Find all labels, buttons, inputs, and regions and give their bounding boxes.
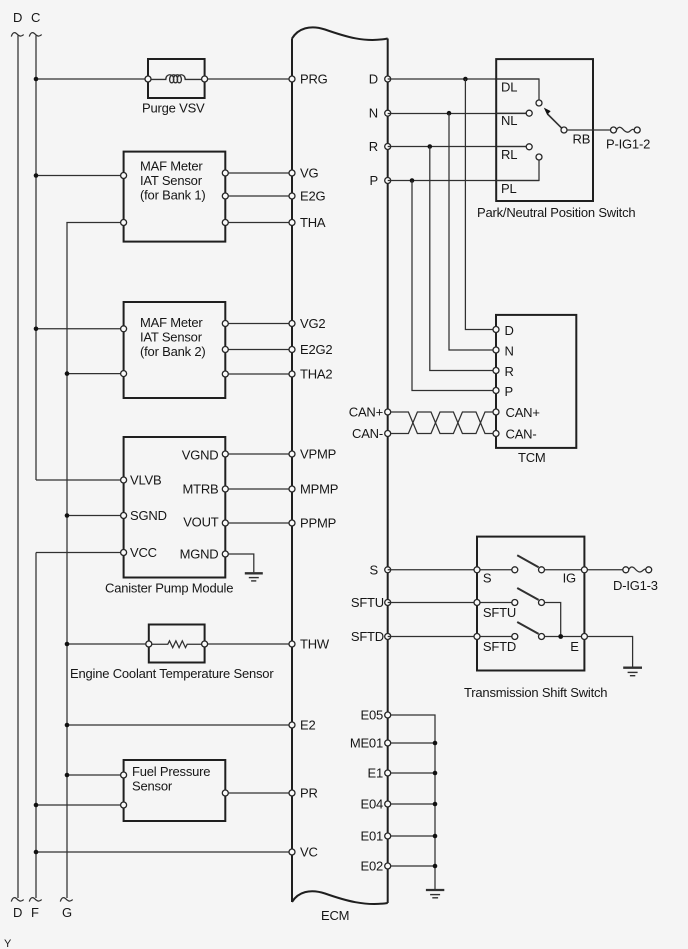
- junction G/SGND: [65, 513, 70, 518]
- pin PR: [289, 790, 295, 796]
- wire C-rail to Purge VSV: [36, 78, 148, 80]
- wire FPS to PR: [225, 792, 292, 794]
- wire G-rail to MAF2 ground: [67, 373, 124, 375]
- pin E01: [385, 833, 391, 839]
- pin TSS S: [474, 567, 480, 573]
- wire VGND to VPMP: [225, 453, 292, 455]
- svg-text:VG: VG: [300, 166, 318, 181]
- wire E02 to bus: [390, 865, 435, 867]
- wire PL lead: [496, 160, 539, 181]
- MAF Meter IAT Sensor (Bank 1) box: [124, 152, 226, 242]
- resistor R1 (ECT thermistor): [152, 641, 202, 648]
- break symbol rail C top: [29, 33, 41, 37]
- wire G-rail to ECT sensor: [67, 643, 149, 645]
- wire ECT sensor to THW: [205, 643, 292, 645]
- pin VC: [289, 849, 295, 855]
- pin FPS left lower: [121, 802, 127, 808]
- pin MAF1 right THA: [222, 220, 228, 226]
- junction bus/E1: [433, 771, 438, 776]
- wire SFTD to E: [545, 636, 585, 638]
- contact RB common: [561, 127, 567, 133]
- pin VG: [289, 170, 295, 176]
- svg-text:CAN-: CAN-: [506, 426, 537, 441]
- svg-text:Purge VSV: Purge VSV: [142, 101, 205, 116]
- pin Purge VSV left: [145, 76, 151, 82]
- pin THW: [289, 641, 295, 647]
- pin D (ECM right): [385, 76, 391, 82]
- svg-text:MGND: MGND: [180, 547, 219, 562]
- pin VCC: [121, 550, 127, 556]
- Engine Coolant Temperature Sensor box: [149, 625, 205, 663]
- pin E2: [289, 722, 295, 728]
- svg-text:CAN+: CAN+: [349, 405, 383, 420]
- wire MAF2 E2G2: [225, 349, 292, 351]
- wire MAF1 THA: [225, 222, 292, 224]
- pin TSS SFTU: [474, 600, 480, 606]
- svg-text:D-IG1-3: D-IG1-3: [613, 578, 658, 593]
- svg-text:MAF Meter: MAF Meter: [140, 315, 203, 330]
- pin MAF2 left upper: [121, 326, 127, 332]
- svg-text:THA: THA: [300, 215, 326, 230]
- junction bus/E02: [433, 864, 438, 869]
- pin FPS left upper: [121, 772, 127, 778]
- svg-text:PRG: PRG: [300, 72, 328, 87]
- wire N branch to TCM N: [449, 113, 496, 350]
- pin CAN+ (ECM): [385, 409, 391, 415]
- pin E05: [385, 712, 391, 718]
- svg-text:VGND: VGND: [182, 448, 219, 463]
- contact DL: [536, 100, 542, 106]
- pin MGND: [222, 551, 228, 557]
- junction R branch: [428, 144, 433, 149]
- pin MAF1 left upper: [121, 173, 127, 179]
- svg-text:D: D: [13, 905, 22, 920]
- svg-text:MAF Meter: MAF Meter: [140, 159, 203, 174]
- wire MAF1 E2G: [225, 195, 292, 197]
- wire Purge VSV to PRG: [205, 78, 292, 80]
- wire SFTU to switch: [388, 602, 512, 604]
- ECM left edge: [291, 39, 293, 903]
- ground MGND: [245, 572, 263, 574]
- svg-text:RL: RL: [501, 147, 517, 162]
- junction SFTU/SFTD: [558, 634, 563, 639]
- wire C-rail to MAF1 VB: [36, 175, 124, 177]
- svg-text:P-IG1-2: P-IG1-2: [606, 137, 650, 152]
- junction bus/E01: [433, 834, 438, 839]
- pin MAF2 right E2G2: [222, 347, 228, 353]
- pin ECT right: [202, 641, 208, 647]
- svg-text:P: P: [370, 173, 378, 188]
- twisted pair CAN wire A: [390, 412, 493, 434]
- switch SFTU blade: [517, 588, 538, 600]
- wire C-rail to MAF2 VB: [36, 328, 124, 330]
- wire D to P/N switch: [388, 78, 539, 80]
- wire VOUT to PPMP: [225, 522, 292, 524]
- junction bus/E04: [433, 802, 438, 807]
- wire P to P/N switch: [388, 180, 539, 182]
- pin TCM P: [493, 388, 499, 394]
- rail G (third vertical wire): [66, 223, 68, 899]
- svg-text:S: S: [370, 562, 379, 577]
- svg-text:P: P: [505, 384, 513, 399]
- junction N branch: [447, 111, 452, 116]
- svg-text:E: E: [570, 639, 579, 654]
- junction G/THW: [65, 642, 70, 647]
- svg-text:Sensor: Sensor: [132, 778, 173, 793]
- wire MGND to ground: [225, 554, 254, 572]
- wire ME01 to bus: [390, 742, 435, 744]
- svg-text:SFTD: SFTD: [483, 639, 516, 654]
- pin TCM CAN-: [493, 431, 499, 437]
- pin E02: [385, 863, 391, 869]
- ECM top wavy edge: [292, 27, 388, 40]
- svg-text:Transmission Shift Switch: Transmission Shift Switch: [464, 685, 607, 700]
- svg-text:E1: E1: [367, 766, 383, 781]
- pin PPMP: [289, 520, 295, 526]
- connector D-IG1-3: [623, 567, 629, 573]
- junction F/VC: [34, 850, 39, 855]
- pin MAF2 right THA2: [222, 371, 228, 377]
- pin MAF2 right VG2: [222, 321, 228, 327]
- pin VGND: [222, 451, 228, 457]
- junction P branch: [410, 178, 415, 183]
- svg-text:Engine Coolant Temperature Sen: Engine Coolant Temperature Sensor: [70, 666, 274, 681]
- junction C/MAF1: [34, 173, 39, 178]
- pin E: [581, 634, 587, 640]
- svg-text:MTRB: MTRB: [182, 481, 218, 496]
- twisted pair CAN wire B: [390, 412, 493, 434]
- switch SFTD contacts: [512, 634, 518, 640]
- wire C-rail to VLVB: [36, 479, 124, 481]
- svg-text:CAN-: CAN-: [352, 426, 383, 441]
- pin VG2: [289, 321, 295, 327]
- pin SFTD (ECM): [385, 634, 391, 640]
- contact NL: [526, 110, 532, 116]
- svg-text:E2G2: E2G2: [300, 342, 332, 357]
- svg-text:SGND: SGND: [130, 508, 167, 523]
- svg-text:E05: E05: [360, 708, 383, 723]
- svg-text:R: R: [369, 139, 378, 154]
- pin TCM N: [493, 347, 499, 353]
- pin E1: [385, 770, 391, 776]
- svg-text:N: N: [505, 343, 514, 358]
- pin E2G: [289, 193, 295, 199]
- pin MTRB: [222, 486, 228, 492]
- pin S (ECM): [385, 567, 391, 573]
- pin TSS SFTD: [474, 634, 480, 640]
- wire E1 to bus: [390, 772, 435, 774]
- svg-text:SFTD: SFTD: [351, 629, 384, 644]
- wire G-rail to SGND: [67, 515, 124, 517]
- svg-text:VPMP: VPMP: [300, 447, 336, 462]
- wire E05 to bus: [390, 715, 435, 889]
- wire S to switch: [388, 569, 512, 571]
- svg-text:E02: E02: [360, 859, 383, 874]
- junction C/MAF2: [34, 327, 39, 332]
- svg-text:RB: RB: [573, 132, 591, 147]
- rail D (left vertical wire): [17, 36, 19, 899]
- rail C (upper section of second vertical wire): [35, 36, 37, 481]
- svg-text:VG2: VG2: [300, 316, 325, 331]
- svg-text:D: D: [13, 10, 22, 25]
- svg-text:SFTU: SFTU: [483, 605, 516, 620]
- pin CAN- (ECM): [385, 431, 391, 437]
- svg-text:E01: E01: [360, 829, 383, 844]
- wire MAF1 VG: [225, 172, 292, 174]
- pin SFTU (ECM): [385, 600, 391, 606]
- MAF Meter IAT Sensor (Bank 2) box: [124, 302, 226, 398]
- switch S contacts: [512, 567, 518, 573]
- pin MPMP: [289, 486, 295, 492]
- svg-text:Canister Pump Module: Canister Pump Module: [105, 581, 233, 596]
- svg-text:C: C: [31, 10, 40, 25]
- svg-text:E2: E2: [300, 718, 316, 733]
- pin MAF1 right VG: [222, 170, 228, 176]
- svg-text:D: D: [369, 72, 378, 87]
- svg-text:MPMP: MPMP: [300, 482, 338, 497]
- wire VCC to rail F: [36, 552, 124, 554]
- ECM right edge: [387, 39, 389, 904]
- coil L1 (Purge VSV solenoid): [151, 75, 202, 83]
- svg-text:SFTU: SFTU: [351, 595, 384, 610]
- ground TSS: [623, 667, 642, 669]
- svg-text:CAN+: CAN+: [506, 405, 540, 420]
- ECM bottom wavy edge: [292, 891, 388, 904]
- pin THA: [289, 220, 295, 226]
- wire NL lead: [496, 112, 526, 114]
- svg-text:Y: Y: [4, 938, 12, 949]
- svg-text:VOUT: VOUT: [183, 515, 219, 530]
- wire MTRB to MPMP: [225, 488, 292, 490]
- wire MAF2 VG2: [225, 323, 292, 325]
- svg-text:R: R: [505, 364, 514, 379]
- wire RL lead: [496, 146, 526, 148]
- wire F-rail to VC: [36, 851, 292, 853]
- wire DL lead: [496, 79, 539, 100]
- wire F-rail to FPS ground: [36, 804, 124, 806]
- pin MAF1 left lower: [121, 220, 127, 226]
- pin VPMP: [289, 451, 295, 457]
- wire E to ground: [587, 637, 632, 667]
- svg-text:PL: PL: [501, 181, 517, 196]
- svg-text:THA2: THA2: [300, 367, 332, 382]
- pin MAF2 left lower: [121, 371, 127, 377]
- rotary switch arm RB: [548, 114, 563, 128]
- svg-text:DL: DL: [501, 80, 517, 95]
- break symbol rail D top: [11, 33, 23, 37]
- Park/Neutral Position Switch box: [496, 59, 593, 201]
- wire SFTU to E bus: [545, 603, 561, 637]
- wire D branch to TCM D: [465, 79, 496, 330]
- svg-text:Park/Neutral Position Switch: Park/Neutral Position Switch: [477, 205, 635, 220]
- TCM box: [496, 315, 576, 448]
- pin SGND: [121, 513, 127, 519]
- Fuel Pressure Sensor box: [124, 760, 226, 821]
- pin TCM CAN+: [493, 409, 499, 415]
- junction D branch: [463, 77, 468, 82]
- junction G/MAF2: [65, 371, 70, 376]
- svg-text:E04: E04: [360, 797, 383, 812]
- pin ME01: [385, 740, 391, 746]
- Transmission Shift Switch box: [477, 537, 584, 671]
- switch SFTD blade: [517, 622, 538, 634]
- wire E04 to bus: [390, 803, 435, 805]
- svg-text:D: D: [505, 323, 514, 338]
- pin E04: [385, 801, 391, 807]
- switch S blade: [517, 555, 538, 567]
- wire R to P/N switch: [388, 146, 526, 148]
- pin N: [385, 110, 391, 116]
- svg-text:S: S: [483, 570, 492, 585]
- pin E2G2: [289, 347, 295, 353]
- wire SFTD to switch: [388, 636, 512, 638]
- wire N to P/N switch: [388, 113, 526, 115]
- wire MAF1 ground to rail G (start): [67, 222, 124, 225]
- svg-text:TCM: TCM: [518, 450, 546, 465]
- junction bus/ME01: [433, 741, 438, 746]
- pin IG: [581, 567, 587, 573]
- svg-text:(for Bank 1): (for Bank 1): [140, 187, 206, 202]
- Canister Pump Module box: [124, 437, 226, 578]
- pin TCM D: [493, 327, 499, 333]
- svg-text:E2G: E2G: [300, 189, 326, 204]
- junction F/FPS: [34, 803, 39, 808]
- contact PL: [536, 154, 542, 160]
- pin FPS right: [222, 790, 228, 796]
- svg-text:ECM: ECM: [321, 908, 349, 923]
- svg-text:THW: THW: [300, 637, 330, 652]
- break symbol rail D bottom: [11, 898, 23, 902]
- Purge VSV box: [148, 59, 205, 98]
- rail F (lower section of second vertical wire): [35, 553, 37, 899]
- wire G-rail to E2: [67, 724, 292, 726]
- pin Purge VSV right: [202, 76, 208, 82]
- svg-text:PR: PR: [300, 786, 318, 801]
- svg-text:IAT Sensor: IAT Sensor: [140, 330, 203, 345]
- wire G-rail to FPS: [67, 774, 124, 776]
- svg-text:F: F: [31, 905, 39, 920]
- pin TCM R: [493, 368, 499, 374]
- pin R: [385, 144, 391, 150]
- wire RB to connector: [567, 129, 613, 131]
- wire S to IG: [545, 569, 585, 571]
- svg-text:(for Bank 2): (for Bank 2): [140, 344, 206, 359]
- svg-text:PPMP: PPMP: [300, 516, 336, 531]
- svg-text:NL: NL: [501, 113, 517, 128]
- ground E bus: [426, 889, 444, 891]
- svg-text:Fuel Pressure: Fuel Pressure: [132, 764, 210, 779]
- pin P: [385, 178, 391, 184]
- pin ECT left: [146, 641, 152, 647]
- wire MAF2 THA2: [225, 373, 292, 375]
- svg-text:IAT Sensor: IAT Sensor: [140, 173, 203, 188]
- pin THA2: [289, 371, 295, 377]
- switch SFTU contacts: [512, 600, 518, 606]
- svg-text:VLVB: VLVB: [130, 472, 161, 487]
- pin PRG: [289, 76, 295, 82]
- junction G/E2: [65, 723, 70, 728]
- wire IG to connector: [587, 569, 625, 571]
- connector P-IG1-2: [611, 127, 617, 133]
- svg-text:IG: IG: [563, 570, 576, 585]
- junction G/FPS: [65, 773, 70, 778]
- break symbol rail F bottom: [29, 898, 41, 902]
- contact RL: [526, 144, 532, 150]
- svg-text:VC: VC: [300, 845, 318, 860]
- pin VOUT: [222, 520, 228, 526]
- break symbol rail G bottom: [60, 898, 72, 902]
- svg-text:VCC: VCC: [130, 545, 157, 560]
- pin MAF1 right E2G: [222, 193, 228, 199]
- pin VLVB: [121, 477, 127, 483]
- svg-text:ME01: ME01: [350, 736, 383, 751]
- wire P branch to TCM P: [412, 181, 496, 391]
- wire R branch to TCM R: [430, 147, 496, 371]
- svg-text:N: N: [369, 106, 378, 121]
- junction C/PRG: [34, 77, 39, 82]
- wire E01 to bus: [390, 835, 435, 837]
- svg-text:G: G: [62, 905, 72, 920]
